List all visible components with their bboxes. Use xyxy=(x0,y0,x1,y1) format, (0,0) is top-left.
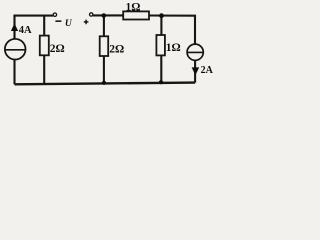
branch 2 wire upper xyxy=(43,16,45,36)
current source 2A circle xyxy=(187,44,203,60)
resistor 1ohm horizontal box xyxy=(123,11,149,19)
4A source arrow xyxy=(11,23,18,31)
node B dot (top, branch 4) xyxy=(159,13,164,18)
svg-text:U: U xyxy=(65,19,73,29)
svg-text:2Ω: 2Ω xyxy=(109,44,124,56)
node dot bottom branch 4 xyxy=(159,80,163,84)
wire top-left segment xyxy=(15,16,54,17)
svg-text:2A: 2A xyxy=(201,65,214,76)
current source 4A circle xyxy=(5,39,26,60)
2A source arrow xyxy=(192,67,200,75)
plus sign of U xyxy=(84,21,89,22)
branch 4 wire upper xyxy=(160,16,162,35)
left vertical wire lower xyxy=(13,60,15,85)
svg-text:1Ω: 1Ω xyxy=(126,1,141,13)
wire from box to node B xyxy=(149,16,195,45)
node dot bottom branch 3 xyxy=(102,81,106,85)
svg-text:2Ω: 2Ω xyxy=(50,43,65,55)
current source 4A bar xyxy=(5,49,25,51)
minus sign of U xyxy=(55,20,61,22)
branch 3 wire lower xyxy=(103,56,105,83)
resistor 1ohm box (branch 4) xyxy=(156,35,165,55)
resistor 2ohm box (branch 3) xyxy=(100,36,109,56)
branch 2 wire lower xyxy=(43,55,45,84)
terminal plus (open circle) xyxy=(90,13,93,16)
svg-text:4A: 4A xyxy=(19,25,32,36)
current source 2A bar xyxy=(187,51,203,53)
node A dot (top, branch 3) xyxy=(102,13,107,18)
svg-text:1Ω: 1Ω xyxy=(166,42,181,54)
left vertical wire upper xyxy=(13,16,15,39)
branch 3 wire upper xyxy=(103,16,105,37)
terminal minus (open circle) xyxy=(53,13,56,16)
branch 4 wire lower xyxy=(160,55,162,82)
wire below 2A source xyxy=(194,60,196,82)
resistor 2ohm box (branch 2) xyxy=(40,36,49,56)
wire right of plus terminal xyxy=(93,14,123,16)
bottom wire xyxy=(15,83,196,85)
